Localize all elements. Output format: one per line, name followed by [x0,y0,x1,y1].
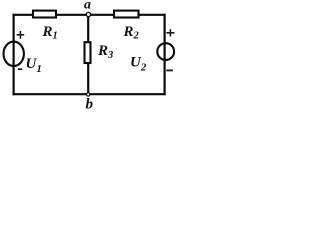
node a [86,12,90,16]
resistor R2 [114,11,139,18]
plus of U1 [17,31,25,39]
minus of U1 [18,68,22,70]
wire middle branch [87,15,89,94]
resistor R1 [33,11,56,18]
wire bottom [13,93,166,95]
resistor R3 [85,42,91,63]
minus of U2 [166,69,173,71]
svg-text:a: a [84,0,91,13]
plus of U2 [166,29,174,36]
wire right [164,14,166,96]
wire top [13,14,166,16]
svg-text:b: b [86,96,94,109]
node b [87,93,90,96]
voltage source U2 [157,43,174,60]
wire left [13,14,15,96]
voltage source U1 [4,42,24,66]
